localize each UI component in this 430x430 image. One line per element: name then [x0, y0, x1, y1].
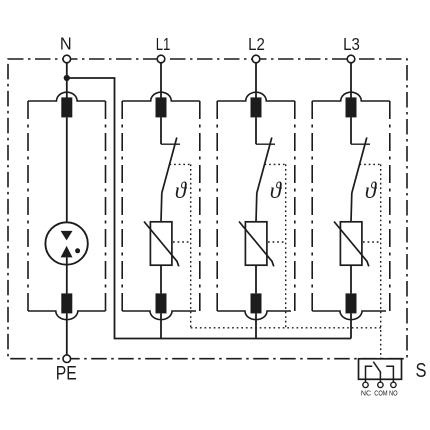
spark gap F1 (gas discharge tube N-PE)	[45, 222, 87, 264]
svg-text:N: N	[60, 33, 72, 53]
terminal block L1 bottom	[156, 293, 167, 313]
terminal block N top	[61, 97, 72, 117]
enclosure outer border (dash-dot)	[8, 59, 407, 359]
wire L2 terminal block to disconnector	[255, 117, 257, 144]
svg-text:COM: COM	[374, 388, 387, 397]
terminal N	[63, 55, 71, 63]
wire varistor to bottom terminal block L1	[160, 265, 162, 293]
svg-text:NO: NO	[389, 388, 398, 397]
terminal block L1 top	[156, 97, 167, 117]
module box L1 (protection module, dashed)	[122, 92, 200, 319]
varistor R3 (L3)	[334, 222, 369, 267]
thermal link (dotted) L2	[265, 164, 286, 327]
wire L1 terminal to module	[160, 63, 162, 98]
wire L3 terminal block to disconnector	[350, 117, 352, 144]
terminal block L2 top	[251, 97, 262, 117]
wire L1 bottom terminal block to bus	[160, 313, 162, 338]
svg-text:L3: L3	[343, 34, 360, 54]
wire N terminal block to spark gap	[66, 117, 68, 231]
svg-text:ϑ: ϑ	[270, 178, 283, 203]
thermal disconnector switch L3	[351, 138, 370, 223]
thermal link (dotted) L1	[170, 164, 191, 327]
thermal disconnector switch L1	[161, 138, 180, 223]
signal line (dotted) to remote contact	[191, 327, 382, 329]
wire N module to PE terminal	[66, 313, 68, 355]
wire spark gap to bottom terminal block	[66, 257, 68, 293]
terminal block N bottom	[61, 293, 72, 313]
svg-text:S: S	[416, 360, 427, 382]
svg-text:L2: L2	[248, 34, 265, 54]
wire L2 bottom terminal block to bus	[255, 313, 257, 338]
wire L3 terminal to module	[350, 63, 352, 98]
terminal L1	[157, 55, 165, 63]
wire varistor to bottom terminal block L3	[350, 265, 352, 293]
thermal link (dotted) L3	[360, 164, 381, 358]
module box N (protection module, dashed)	[28, 92, 106, 319]
wire N terminal to module	[66, 63, 68, 98]
terminal block L2 bottom	[251, 293, 262, 313]
svg-text:L1: L1	[156, 34, 171, 54]
terminal block L3 bottom	[346, 293, 357, 313]
svg-text:ϑ: ϑ	[365, 178, 378, 203]
terminal PE	[63, 355, 71, 363]
junction node (N to bus)	[64, 75, 70, 81]
terminal block L3 top	[346, 97, 357, 117]
remote signalling contact S (changeover)	[359, 359, 402, 380]
wire varistor to bottom terminal block L2	[255, 265, 257, 293]
contact pin NC	[363, 379, 368, 387]
wire: N bus from junction to MOV common bus	[67, 78, 351, 339]
terminal L2	[252, 55, 260, 63]
varistor R2 (L2)	[239, 222, 274, 267]
contact pin NO	[391, 379, 396, 387]
wire L3 bottom terminal block to bus	[350, 313, 352, 338]
wire L2 terminal to module	[255, 63, 257, 98]
thermal disconnector switch L2	[256, 138, 275, 223]
contact pin COM	[378, 379, 383, 387]
svg-text:PE: PE	[56, 364, 77, 385]
module box L3 (protection module, dashed)	[312, 92, 390, 319]
terminal L3	[347, 55, 355, 63]
wire L1 terminal block to disconnector	[160, 117, 162, 144]
svg-text:ϑ: ϑ	[175, 178, 188, 203]
module box L2 (protection module, dashed)	[217, 92, 295, 319]
varistor R1 (L1)	[144, 222, 179, 267]
svg-text:NC: NC	[361, 388, 372, 397]
